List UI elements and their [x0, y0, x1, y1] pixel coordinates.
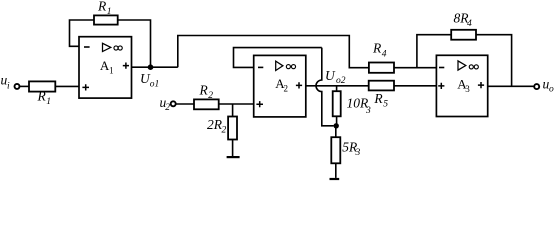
- svg-text:2R: 2R: [207, 117, 223, 132]
- svg-text:R: R: [97, 0, 107, 13]
- svg-text:o: o: [549, 84, 554, 94]
- svg-text:1: 1: [109, 65, 114, 75]
- svg-text:5: 5: [383, 100, 388, 110]
- svg-text:3: 3: [465, 84, 470, 94]
- svg-text:U: U: [325, 68, 336, 83]
- svg-text:i: i: [7, 81, 10, 91]
- svg-text:1: 1: [107, 7, 112, 17]
- svg-text:2: 2: [222, 125, 227, 135]
- svg-text:o1: o1: [150, 79, 160, 89]
- svg-text:R: R: [199, 82, 209, 97]
- svg-text:R: R: [37, 88, 47, 103]
- svg-text:o2: o2: [336, 76, 346, 86]
- svg-text:R: R: [372, 41, 382, 56]
- svg-text:3: 3: [365, 106, 371, 116]
- svg-text:1: 1: [46, 97, 51, 107]
- svg-text:4: 4: [382, 49, 387, 59]
- svg-text:2: 2: [208, 91, 213, 101]
- svg-text:2: 2: [284, 84, 289, 94]
- svg-text:R: R: [373, 91, 383, 106]
- svg-text:2: 2: [165, 103, 170, 113]
- svg-text:4: 4: [467, 19, 472, 29]
- svg-text:3: 3: [355, 148, 361, 158]
